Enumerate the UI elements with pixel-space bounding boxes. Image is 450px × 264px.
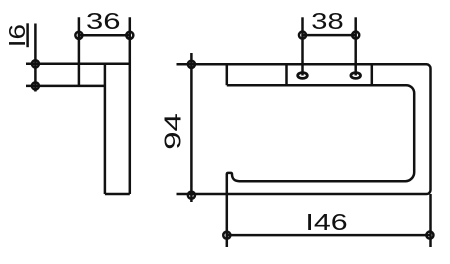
svg-text:I46: I46 [305,209,347,235]
svg-text:38: 38 [311,8,343,34]
svg-text:94: 94 [159,113,185,150]
svg-text:I6: I6 [4,24,30,47]
svg-text:36: 36 [86,8,121,34]
